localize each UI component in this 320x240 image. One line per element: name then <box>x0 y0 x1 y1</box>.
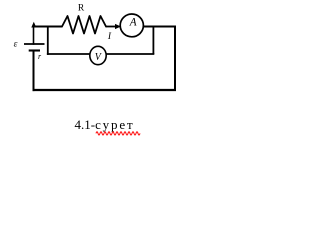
red spellcheck wavy underline under caption <box>96 132 140 135</box>
voltmeter U2 circle <box>90 46 106 64</box>
ammeter U1 circle <box>120 14 143 37</box>
circuit schematic figure 4.1 <box>0 0 193 144</box>
wire resistor to ammeter <box>106 26 118 28</box>
resistor R zigzag <box>62 16 106 34</box>
caption 4.1-сурет <box>75 117 135 133</box>
arrowhead on battery wire pointing up <box>31 22 36 28</box>
voltmeter branch left horizontal <box>47 53 90 55</box>
voltmeter branch right horizontal <box>106 53 154 55</box>
wire ammeter to top-right corner <box>143 26 176 28</box>
wire left side vertical below battery <box>33 51 35 92</box>
svg-text:ε: ε <box>14 39 18 49</box>
voltmeter branch right vertical <box>152 26 154 55</box>
battery top plate (long) <box>24 43 45 45</box>
wire battery to top wire <box>33 26 35 45</box>
wire bottom <box>33 89 177 91</box>
voltmeter branch left vertical <box>47 26 49 55</box>
svg-text:R: R <box>78 4 85 14</box>
arrowhead current direction into ammeter <box>115 24 121 29</box>
svg-text:A: A <box>129 16 137 28</box>
wire top-left segment <box>33 26 63 28</box>
wire right side vertical <box>174 26 176 92</box>
battery bottom plate (short) <box>29 49 40 51</box>
